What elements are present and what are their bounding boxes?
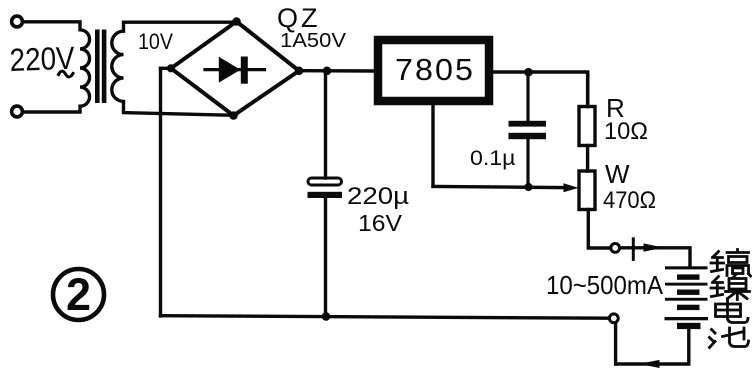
wire: 220u capacitor upper lead	[324, 71, 327, 178]
battery cell2 short plate	[677, 290, 700, 295]
battery cell3 short plate	[677, 305, 700, 310]
battery BT cell1 long plate	[665, 266, 708, 269]
wire: bottom rail	[161, 316, 609, 319]
svg-text:10Ω: 10Ω	[604, 118, 648, 145]
transformer T primary winding with wires	[24, 22, 90, 112]
transformer core bars	[95, 30, 100, 104]
hanzi Ge (cadmium)	[711, 250, 751, 277]
battery cell4 long plate	[665, 317, 709, 320]
terminal plus output circle	[611, 244, 620, 253]
label tilde under 220V	[59, 71, 74, 77]
arrow into potentiometer wiper	[564, 183, 579, 192]
node: junction 0.1u bottom	[524, 183, 532, 191]
node: junction 0.1u top	[524, 68, 533, 77]
current arrow right	[644, 243, 664, 251]
wire: bridge right vertex to 7805 input	[302, 69, 375, 73]
plus sign mark	[632, 239, 635, 260]
svg-text:QZ: QZ	[277, 3, 321, 33]
wire: 7805 output	[489, 72, 588, 107]
node: bridge top vertex junction	[232, 17, 241, 26]
node: junction 220u bottom on rail	[322, 312, 331, 321]
svg-text:W: W	[605, 159, 630, 189]
current arrow left	[639, 360, 660, 368]
battery cell4 short plate	[677, 323, 701, 329]
capacitor C1 negative plate	[308, 192, 343, 198]
svg-text:0.1µ: 0.1µ	[470, 147, 516, 170]
regulator U1 7805 box	[378, 40, 489, 101]
svg-text:7805: 7805	[395, 52, 475, 87]
wire: 0.1u lower lead	[526, 139, 529, 185]
figure number 2 circled	[53, 269, 104, 320]
terminal bottom-left input	[12, 106, 23, 117]
hanzi Dian (electric)	[716, 301, 749, 323]
transformer T secondary winding with wires to bridge	[112, 22, 236, 115]
diode inside bridge	[205, 57, 265, 84]
node: bridge right vertex junction	[295, 67, 304, 76]
wire: battery bottom return	[616, 330, 689, 365]
hanzi Chi (pool)	[710, 328, 749, 348]
capacitor C2 0.1u top plate	[509, 121, 547, 127]
battery cell1 short plate	[677, 274, 700, 279]
hanzi Nie (nickel)	[711, 275, 750, 300]
wire: negative drop from bridge left vertex down to bottom rail	[159, 68, 162, 316]
svg-text:1A50V: 1A50V	[280, 30, 347, 52]
battery cell2 long plate	[665, 283, 708, 286]
wire: R to W	[586, 146, 589, 172]
svg-text:10~500mA: 10~500mA	[546, 270, 664, 300]
svg-text:2: 2	[66, 269, 91, 320]
capacitor C2 0.1u bottom plate	[509, 133, 547, 139]
wire: return riser to minus terminal	[614, 324, 617, 364]
node: bridge left vertex junction	[167, 64, 175, 72]
wire: 7805 ground pin down	[431, 105, 434, 186]
capacitor C1 220u 16V electrolytic positive plate	[308, 178, 342, 185]
wire: ground pin run to wiper	[433, 186, 563, 187]
wire: 220u capacitor lower lead	[324, 198, 327, 316]
battery cell3 long plate	[665, 298, 708, 301]
terminal minus output circle	[609, 314, 618, 323]
svg-text:470Ω: 470Ω	[603, 187, 656, 214]
wire: 0.1u upper lead	[526, 74, 529, 121]
node: bridge bottom vertex junction	[229, 111, 238, 120]
terminal top-left input	[12, 16, 23, 27]
svg-text:16V: 16V	[358, 210, 403, 236]
node: junction 220u tap	[323, 67, 332, 76]
wire: plus terminal to battery top	[621, 248, 691, 267]
potentiometer W 470ohm body	[579, 171, 595, 210]
bridge rectifier QZ diamond	[171, 22, 299, 116]
wire: W down to plus terminal	[588, 210, 610, 249]
wire: bridge left vertex stub	[161, 67, 172, 70]
svg-text:10V: 10V	[138, 29, 173, 54]
resistor R 10ohm body	[579, 107, 595, 146]
svg-text:220µ: 220µ	[347, 183, 409, 210]
